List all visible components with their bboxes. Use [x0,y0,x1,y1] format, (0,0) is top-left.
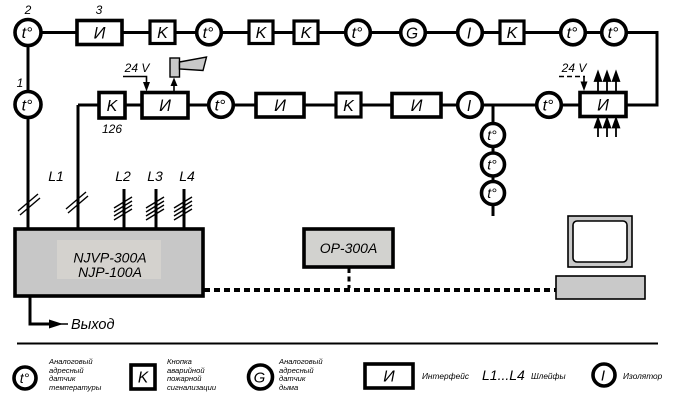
button K (row2) [336,93,361,117]
svg-text:K: K [343,98,355,115]
svg-text:t°: t° [352,25,363,42]
svg-text:t°: t° [203,25,214,42]
svg-text:K: K [256,25,268,42]
svg-text:t°: t° [22,25,33,42]
sensor t° (top 2) [197,20,222,45]
wire top loop [28,33,657,106]
svg-text:L1...L4: L1...L4 [482,367,525,383]
svg-text:L2: L2 [115,168,131,184]
button K 126 [99,93,125,119]
svg-text:24 V: 24 V [561,61,588,75]
svg-text:сигнализации: сигнализации [167,383,217,392]
siren icon [170,58,180,77]
svg-text:1: 1 [17,76,24,90]
output wire Выход [30,296,50,324]
svg-text:K: K [507,25,519,42]
svg-text:126: 126 [102,122,122,136]
svg-text:L1: L1 [48,168,64,184]
sensor t° (row2 right) [537,93,562,118]
svg-text:I: I [467,26,472,43]
computer monitor [568,216,632,267]
data bus dashed line [204,288,556,292]
slash marks L2 [114,197,132,220]
sensor t° (top 4) [561,20,586,45]
sensor t° (chain 3) [482,182,505,205]
svg-text:Шлейфы: Шлейфы [531,371,566,381]
legend sensor t° [14,367,36,389]
svg-text:G: G [406,26,418,43]
svg-text:Аналоговый: Аналоговый [278,357,323,366]
legend smoke sensor G [249,365,273,389]
svg-text:t°: t° [487,185,497,201]
smoke sensor G [401,20,426,45]
svg-text:Изолятор: Изолятор [623,371,663,381]
legend text temperature sensor [48,357,102,392]
svg-text:K: K [157,25,169,42]
wire left vertical L1 [27,33,30,230]
svg-text:24 V: 24 V [124,61,151,75]
sensor t° (row2 a) [209,93,234,118]
svg-text:И: И [159,97,171,115]
svg-text:Выход: Выход [71,317,115,333]
svg-text:Аналоговый: Аналоговый [48,357,93,366]
svg-text:пожарной: пожарной [167,374,202,383]
button K (top 2) [249,21,273,44]
siren arrow [173,84,175,92]
legend isolator I [593,364,615,386]
button K (top 3) [294,21,318,44]
svg-text:L4: L4 [179,168,195,184]
isolator I (top) [458,20,483,45]
svg-text:t°: t° [20,370,30,386]
24V feed arrow (left) [123,77,147,84]
legend text button [167,357,217,392]
interface И (siren) [142,93,188,119]
svg-text:K: K [107,98,119,115]
svg-text:t°: t° [487,157,497,173]
interface И (right, 24V) [580,93,626,117]
svg-text:t°: t° [22,98,33,115]
slash marks L3 [146,197,164,220]
button K (top 1) [150,21,175,44]
isolator I (row2) [458,93,483,118]
svg-text:И: И [94,25,106,43]
legend button K [131,365,155,389]
legend interface И [365,364,413,388]
wire second row [78,104,580,107]
svg-text:I: I [467,98,472,115]
wire second row drop to panel [77,105,80,229]
control panel NJVP-300A/NJP-100A [15,229,203,296]
svg-text:OP-300A: OP-300A [320,240,378,256]
slash marks wire L1 left [18,194,40,215]
slash marks L4 [174,197,192,220]
svg-text:датчик: датчик [49,374,76,383]
OP-300A drop dashed [348,268,351,288]
svg-text:L3: L3 [147,168,163,184]
svg-text:3: 3 [96,3,103,17]
svg-text:K: K [138,370,149,387]
sensor t° (chain 2) [482,153,505,176]
svg-text:t°: t° [608,25,619,42]
svg-text:И: И [597,97,609,115]
svg-text:t°: t° [215,98,226,115]
svg-text:И: И [383,369,395,386]
interface И (addr 3) [77,21,122,45]
svg-text:I: I [601,368,605,385]
24V dashed underline (right) [559,76,585,78]
24V arrow into interface (right) [583,77,585,83]
sensor t° (addr 2) [15,20,41,46]
svg-text:G: G [254,370,266,387]
svg-text:Интерфейс: Интерфейс [422,371,470,381]
svg-text:K: K [301,25,313,42]
output arrows below right interface [595,119,619,138]
loop stub L3 [155,189,158,229]
interface И (row2 c) [392,94,441,118]
legend text smoke sensor [278,357,323,392]
svg-text:Кнопка: Кнопка [167,357,192,366]
svg-text:2: 2 [24,3,32,17]
svg-text:t°: t° [543,98,554,115]
loop stub L2 [123,189,126,229]
legend separator [17,343,658,345]
svg-text:И: И [274,97,286,115]
wire t-chain vertical [492,105,495,216]
svg-text:датчик: датчик [279,374,306,383]
sensor t° (top 5) [602,20,627,45]
svg-text:NJP-100A: NJP-100A [78,264,142,280]
svg-text:И: И [411,97,423,115]
operator panel OP-300A [304,229,393,267]
svg-text:дыма: дыма [279,383,298,392]
sensor t° (addr 1) [15,92,41,118]
sensor t° (chain 1) [482,124,505,147]
sensor t° (top 3) [346,20,371,45]
interface И (row2 b) [256,94,304,118]
output arrows above right interface [595,72,619,92]
slash marks wire L1 right [66,192,88,213]
loop stub L4 [183,189,186,229]
svg-text:t°: t° [487,127,497,143]
svg-text:t°: t° [567,25,578,42]
button K (top 4) [500,21,524,44]
svg-text:температуры: температуры [49,383,102,392]
computer system unit [556,276,645,299]
